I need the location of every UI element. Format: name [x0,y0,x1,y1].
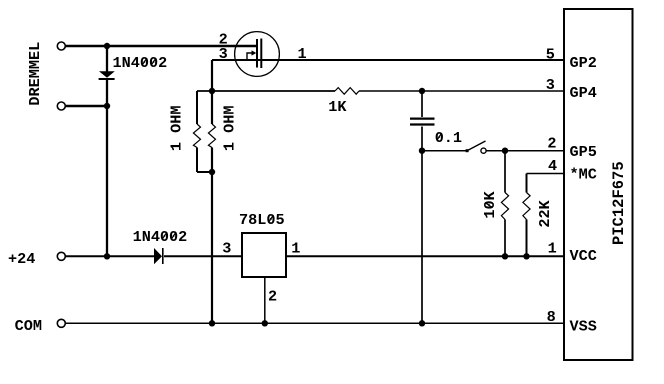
svg-text:+24: +24 [8,250,35,268]
svg-text:GP4: GP4 [570,84,597,102]
svg-text:3: 3 [219,45,228,63]
svg-text:2: 2 [547,135,556,153]
svg-text:5: 5 [546,46,555,64]
svg-text:10K: 10K [481,190,499,218]
svg-text:1: 1 [291,240,300,258]
svg-text:VCC: VCC [570,247,597,265]
svg-text:8: 8 [547,308,556,326]
svg-text:*MC: *MC [570,166,597,184]
svg-text:1 OHM: 1 OHM [220,106,238,152]
svg-text:22K: 22K [536,199,554,227]
svg-text:COM: COM [15,317,42,335]
svg-text:1: 1 [548,239,557,257]
svg-text:VSS: VSS [570,318,597,336]
svg-text:78L05: 78L05 [239,211,285,229]
svg-text:1K: 1K [328,98,347,116]
svg-text:GP5: GP5 [570,143,597,161]
svg-text:4: 4 [548,157,557,175]
svg-text:1 OHM: 1 OHM [167,106,185,152]
svg-text:3: 3 [546,76,555,94]
svg-text:GP2: GP2 [570,54,597,72]
svg-text:2: 2 [268,288,277,306]
svg-text:PIC12F675: PIC12F675 [610,161,628,245]
svg-text:1N4002: 1N4002 [133,228,188,246]
svg-text:1N4002: 1N4002 [113,54,168,72]
svg-text:DREMMEL: DREMMEL [26,42,44,106]
svg-text:1: 1 [298,45,307,63]
svg-text:3: 3 [222,240,231,258]
